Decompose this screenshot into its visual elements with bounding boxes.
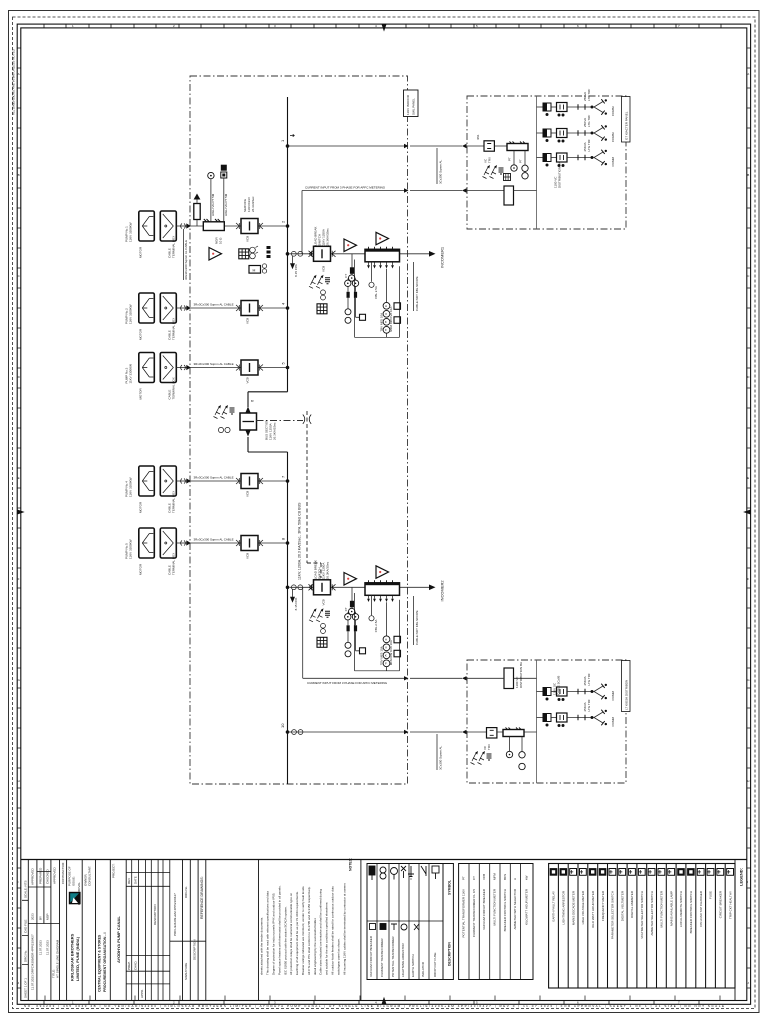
svg-text:DRG No.: DRG No.: [184, 886, 188, 898]
svg-text:ALL DIMENSIONS ARE IN MM UNLES: ALL DIMENSIONS ARE IN MM UNLESS NOTED: [12, 48, 16, 115]
svg-text:AMMETER SELECTOR SWITCH: AMMETER SELECTOR SWITCH: [650, 891, 654, 936]
svg-text:EARTH FAULT RELAY: EARTH FAULT RELAY: [552, 891, 556, 921]
svg-text:and suitable for the site cond: and suitable for the site conditions spe…: [325, 901, 329, 975]
11KV indoor switchgear panel boundary (dash-dot): [190, 76, 408, 784]
GT kiosk APFC box: [504, 186, 514, 205]
svg-text:3Rx3Cx300 Sqmm AL CABLE: 3Rx3Cx300 Sqmm AL CABLE: [194, 303, 234, 307]
svg-text:sheets attached with the tende: sheets attached with the tender document…: [260, 917, 264, 975]
svg-text:CABLE 3Cx95: CABLE 3Cx95: [557, 675, 561, 695]
svg-text:VCB: VCB: [246, 236, 250, 242]
legend row 8: [619, 869, 626, 876]
abbreviation table frame: [459, 864, 533, 980]
svg-text:LIGHTNING ARRESTOR: LIGHTNING ARRESTOR: [401, 943, 405, 977]
svg-text:CENTRAL EQUIPMENT & STORES: CENTRAL EQUIPMENT & STORES: [98, 934, 102, 992]
svg-text:LOCAL REMOTE SWITCH: LOCAL REMOTE SWITCH: [679, 891, 683, 927]
pump1 H box: [249, 266, 261, 274]
NGR bus box: [203, 222, 224, 231]
pump 4 feeder wire: [190, 480, 288, 482]
svg-text:SIGNATURE: SIGNATURE: [184, 963, 188, 980]
svg-text:CONTRACTOR:: CONTRACTOR:: [61, 862, 65, 884]
GT kiosk partition wire: [536, 96, 538, 229]
svg-text:COMM: COMM: [611, 106, 615, 116]
pump1 flags cluster: [267, 246, 271, 258]
legend row 3: [570, 869, 577, 876]
svg-text:DISTRIBUTION BA: DISTRIBUTION BA: [519, 662, 523, 688]
svg-text:HT SINGLE LINE DIAGRAM: HT SINGLE LINE DIAGRAM: [56, 939, 60, 978]
pump 4 breaker: [236, 474, 263, 489]
incomer 2 metering frame inner: [355, 593, 400, 671]
svg-text:ISSUE:: ISSUE:: [72, 876, 76, 886]
svg-text:3Cx300 Sqmm AL: 3Cx300 Sqmm AL: [438, 159, 442, 184]
svg-text:CHECKED: CHECKED: [46, 868, 50, 884]
pump1 small circles: [262, 264, 266, 268]
svg-text:TERMINAL BOX: TERMINAL BOX: [172, 318, 176, 340]
svg-text:LT KIOSK DISTRIBDN: LT KIOSK DISTRIBDN: [625, 680, 629, 710]
symbol table 1 lower glyph row: [370, 924, 420, 931]
node 8 junction: [286, 541, 290, 545]
incomer 1 cable scope label: [413, 262, 415, 311]
pump 1 cable drop line: [183, 229, 185, 280]
pump motor M1 and cable terminal box: [139, 211, 191, 241]
svg-text:TRX: TRX: [487, 744, 491, 750]
svg-text:CABLE NOT KBL SCOPE: CABLE NOT KBL SCOPE: [415, 610, 419, 645]
incomer 2 APFC frame outer: [303, 587, 404, 678]
legend row 10: [638, 869, 645, 876]
svg-text:NOTES:: NOTES:: [348, 858, 352, 871]
bus section dash-dot tie wire: [257, 420, 304, 422]
svg-text:A: A: [18, 72, 20, 76]
LT kiosk partition wire: [536, 660, 538, 783]
pump 1 feeder wire: [190, 225, 288, 227]
svg-text:Panel space heaters with therm: Panel space heaters with thermostat shal…: [277, 885, 281, 975]
svg-text:POTENTIAL TRANSFORMER: POTENTIAL TRANSFORMER: [391, 936, 395, 977]
svg-text:3Rx3Cx300 Sqmm AL CABLE: 3Rx3Cx300 Sqmm AL CABLE: [184, 240, 188, 280]
GT kiosk service transformer box: [484, 141, 494, 151]
LT kiosk feeder cable label: [436, 734, 438, 770]
pump 5 feeder wire: [190, 542, 288, 544]
svg-text:LTG TRF: LTG TRF: [587, 673, 591, 685]
svg-text:INCOMER2: INCOMER2: [440, 580, 445, 602]
incomer 2 exit wire: [408, 586, 429, 588]
svg-text:11KV 3300KW: 11KV 3300KW: [129, 304, 133, 324]
incomer 1 exit wire: [408, 253, 429, 255]
incomer 2 APFC wire to LT kiosk: [410, 677, 462, 679]
svg-text:SCALE: NTS: SCALE: NTS: [24, 880, 28, 898]
svg-text:GT KIACTER PANEL: GT KIACTER PANEL: [625, 111, 629, 140]
motor protection relay triangle: [209, 248, 222, 261]
svg-text:11KV 3300KW: 11KV 3300KW: [129, 364, 133, 384]
svg-text:CONSULTANT:: CONSULTANT:: [88, 865, 92, 886]
symbol description header: [443, 864, 453, 980]
legend row 9: [629, 869, 636, 876]
frame tick marks right: [747, 48, 751, 988]
svg-text:LEGEND:: LEGEND:: [739, 868, 744, 886]
svg-text:LIMITED, PUNE (INDIA): LIMITED, PUNE (INDIA): [75, 936, 80, 981]
pump1 aux grid meter: [239, 249, 249, 259]
svg-text:CURRENT INPUT FROM 3 PHASE FOR: CURRENT INPUT FROM 3 PHASE FOR APFC METE…: [305, 186, 386, 190]
svg-text:POTENTIAL TRANSFORMER 11KV: POTENTIAL TRANSFORMER 11KV: [462, 889, 466, 937]
svg-text:VCB: VCB: [246, 318, 250, 324]
GT kiosk PT drops: [514, 151, 525, 166]
pump motor M4 and cable terminal box: [139, 466, 191, 496]
incomer 1 metering frame: [355, 260, 400, 338]
svg-text:COMM: COMM: [611, 132, 615, 142]
GT kiosk aux grid: [504, 174, 511, 181]
svg-text:F: F: [18, 577, 20, 581]
legend row 17: [707, 869, 714, 876]
LT kiosk branch 1: [537, 684, 608, 701]
LT kiosk PT bus: [503, 728, 524, 737]
svg-text:F: F: [747, 577, 749, 581]
drg number columns: [170, 860, 259, 1001]
svg-text:3Rx3Cx300 Sqmm AL CABLE: 3Rx3Cx300 Sqmm AL CABLE: [194, 538, 234, 542]
svg-text:2023: 2023: [31, 913, 35, 920]
GT kiosk panel boundary top right (dash-dot): [467, 96, 626, 229]
svg-text:VACUUM CIRCUIT BREAKER: VACUUM CIRCUIT BREAKER: [482, 888, 486, 930]
svg-text:PT: PT: [508, 157, 512, 161]
node 5 junction: [286, 366, 290, 370]
svg-text:TERMINAL BOX: TERMINAL BOX: [172, 377, 176, 399]
node 4 junction: [286, 306, 290, 310]
bus section breaker Q6: [240, 413, 257, 430]
legend row 16: [697, 869, 704, 876]
CVT square symbol: [221, 165, 227, 171]
legend row 15: [688, 869, 695, 876]
pump1 meter circles: [250, 247, 256, 253]
pump motor M2 and cable terminal box: [139, 293, 191, 323]
svg-text:CT: CT: [472, 876, 476, 880]
svg-text:11KV INDOOR: 11KV INDOOR: [406, 94, 410, 115]
revision table grid: [126, 860, 170, 1001]
svg-text:BCS: BCS: [503, 874, 507, 880]
symbol table 1 glyphs: [369, 866, 439, 880]
svg-text:PROCUREMENT ORGANISATION - I: PROCUREMENT ORGANISATION - I: [103, 933, 107, 992]
LT kiosk wire: [497, 731, 537, 733]
svg-text:A: A: [747, 72, 749, 76]
svg-text:SHEET 1 OF 1: SHEET 1 OF 1: [24, 978, 28, 998]
svg-text:VACUUM CIRCUIT BREAKER: VACUUM CIRCUIT BREAKER: [369, 935, 373, 977]
LT kiosk panel boundary bottom right (dash-dot): [467, 660, 626, 783]
LEGEND heading: [734, 860, 736, 1001]
svg-text:COMM: COMM: [611, 717, 615, 727]
panel label box: 11KV INDOOR SWGR PANEL: [404, 90, 419, 117]
svg-text:VCB: VCB: [322, 599, 326, 605]
notes section border: [360, 860, 362, 1001]
svg-text:APPD.: APPD.: [140, 989, 144, 998]
svg-text:SYMBOL: SYMBOL: [448, 879, 452, 895]
svg-text:DESCRIPTION: DESCRIPTION: [193, 939, 197, 960]
svg-text:PT: PT: [462, 876, 466, 880]
bus section jog wire: [248, 392, 288, 452]
svg-text:11KV 3300KW: 11KV 3300KW: [129, 477, 133, 497]
svg-text:COMM: COMM: [611, 691, 615, 701]
svg-text:VCB: VCB: [322, 266, 326, 272]
GT kiosk entry wires: [466, 146, 504, 191]
svg-text:MULTI FUNCTION METER: MULTI FUNCTION METER: [493, 888, 497, 925]
frame tick marks top: [44, 24, 721, 28]
svg-text:TRX: TRX: [488, 157, 492, 163]
LT kiosk branch 2: [537, 710, 608, 727]
approval rows lines: [28, 872, 59, 924]
pump motor M3 and cable terminal box: [139, 353, 191, 383]
GT kiosk branch 2: [537, 125, 608, 142]
svg-text:VCB: VCB: [246, 491, 250, 497]
bus section aux meters: [218, 427, 223, 432]
legend table row lines: [558, 864, 725, 989]
svg-text:CABLE NOT KBL SCOPE: CABLE NOT KBL SCOPE: [415, 276, 419, 311]
svg-text:KILO WATT HOUR METER: KILO WATT HOUR METER: [591, 890, 595, 928]
svg-text:KILOWATT HOUR METER: KILOWATT HOUR METER: [525, 888, 529, 925]
pump 3 breaker: [236, 360, 263, 375]
incomer 2 cable scope label: [413, 596, 415, 645]
svg-text:BY: BY: [39, 916, 43, 920]
svg-text:E: E: [18, 476, 20, 480]
LT kiosk entry wire: [466, 731, 487, 733]
svg-text:Breaker ratings indicated are: Breaker ratings indicated are minimum; v…: [301, 885, 305, 975]
incomer 2 breaker: [309, 580, 336, 595]
svg-text:IEC 61850 protocol with the st: IEC 61850 protocol with the station SCAD…: [283, 906, 287, 975]
svg-text:EARTH SWITCH: EARTH SWITCH: [411, 954, 415, 977]
centering mark left: [17, 510, 25, 515]
svg-text:DIGITAL AMMETER: DIGITAL AMMETER: [630, 890, 634, 918]
svg-text:COMM: COMM: [611, 157, 615, 167]
svg-text:REFERENCE DRAWINGS:: REFERENCE DRAWINGS:: [200, 876, 204, 919]
svg-text:PRCL/E/4209+EM 4PP/23/0427: PRCL/E/4209+EM 4PP/23/0427: [173, 893, 177, 936]
svg-text:3Rx3Cx300 Sqmm AL CABLE: 3Rx3Cx300 Sqmm AL CABLE: [194, 362, 234, 366]
legend row 12: [658, 869, 665, 876]
svg-text:11.07.2023: 11.07.2023: [46, 940, 50, 955]
svg-text:All protection relays shall be: All protection relays shall be numerical…: [289, 893, 293, 975]
bus break symbol: [303, 415, 311, 424]
legend row 14: [678, 869, 685, 876]
svg-text:LIGHTNING ARRESTOR: LIGHTNING ARRESTOR: [562, 890, 566, 924]
pump 2 feeder wire: [190, 307, 288, 309]
svg-text:HIGH VG PT 5M: HIGH VG PT 5M: [224, 193, 228, 216]
svg-text:PT: PT: [519, 159, 523, 163]
svg-text:CAD FILE: CAD FILE: [24, 919, 28, 933]
svg-text:TERMINAL BOX: TERMINAL BOX: [172, 236, 176, 258]
svg-text:HIGH VG PT 5M: HIGH VG PT 5M: [211, 193, 215, 216]
svg-text:E: E: [747, 476, 749, 480]
svg-text:A: A: [513, 878, 517, 880]
small arrow glyph: [290, 134, 295, 136]
centering mark bottom: [382, 997, 387, 1005]
svg-text:H: H: [253, 268, 256, 273]
svg-text:H: H: [747, 779, 749, 783]
kirloskar logo: [69, 892, 81, 905]
svg-text:CURRENT TRANSFORMER: CURRENT TRANSFORMER: [380, 938, 384, 977]
pump 5 breaker: [236, 536, 263, 551]
svg-text:KIRLOSKAR BROTHERS: KIRLOSKAR BROTHERS: [70, 933, 75, 981]
svg-text:B: B: [747, 173, 749, 177]
svg-text:H: H: [18, 779, 20, 783]
svg-text:LTG TRF: LTG TRF: [587, 139, 591, 151]
symbol table 1 frame: [367, 864, 443, 980]
legend row 19: [727, 869, 734, 876]
NGR earthing resistor R1: [194, 204, 200, 220]
service feeder wire to GT kiosk: [288, 145, 463, 147]
GT kiosk wire: [495, 145, 508, 147]
svg-text:DRG No.: DRG No.: [24, 950, 28, 962]
title block section lines left: [28, 860, 126, 1001]
svg-text:ISOLATOR: ISOLATOR: [421, 961, 425, 977]
LT kiosk label box: [622, 661, 631, 712]
GT kiosk PT bus: [507, 142, 528, 151]
svg-text:FREQUENCY METER: FREQUENCY METER: [601, 890, 605, 921]
legend row 18: [717, 869, 724, 876]
svg-text:MAINS DECADE METER: MAINS DECADE METER: [571, 890, 575, 925]
pump 2 breaker: [236, 301, 263, 316]
node 7 junction: [286, 479, 290, 483]
svg-text:TRIP CKT HEALTHY: TRIP CKT HEALTHY: [728, 891, 732, 919]
svg-text:MOTOR: MOTOR: [139, 563, 143, 575]
svg-text:26.3A/3Sec: 26.3A/3Sec: [251, 196, 255, 212]
bus section fuse cluster: [214, 405, 235, 419]
svg-text:MFM: MFM: [493, 873, 497, 880]
centering mark right: [743, 510, 751, 515]
svg-text:DROP OUT FUSE: DROP OUT FUSE: [433, 952, 437, 977]
svg-text:TERMINAL BOX: TERMINAL BOX: [172, 553, 176, 575]
svg-text:MSP: MSP: [46, 913, 50, 920]
svg-text:DIGITAL VOLTMETER: DIGITAL VOLTMETER: [620, 890, 624, 921]
incomer 1 cluster: [286, 227, 408, 338]
svg-text:MOTOR: MOTOR: [139, 388, 143, 400]
svg-text:AYODHYA PUMP CANAL: AYODHYA PUMP CANAL: [116, 916, 121, 963]
svg-text:DESCRIPTION: DESCRIPTION: [153, 904, 157, 925]
svg-text:MOTOR: MOTOR: [139, 246, 143, 258]
svg-text:Earthing of all equipment shal: Earthing of all equipment shall be as pe…: [295, 891, 299, 975]
svg-text:26.3KA/3Sec: 26.3KA/3Sec: [273, 422, 277, 440]
legend table frame: [549, 864, 735, 989]
svg-text:All outdoor kiosk feeders shal: All outdoor kiosk feeders shall be rated…: [331, 886, 335, 975]
svg-text:switchgear panel as shown.: switchgear panel as shown.: [336, 938, 340, 975]
legend row 4: [580, 869, 587, 876]
LT kiosk APFC box: [504, 668, 514, 689]
scale column row lines: [22, 900, 28, 964]
svg-text:3Rx3Cx300 Sqmm AL CABLE: 3Rx3Cx300 Sqmm AL CABLE: [194, 476, 234, 480]
title block top border: [21, 859, 747, 861]
pump 1 breaker: [236, 219, 263, 234]
svg-text:3Cx300 Sqmm AL: 3Cx300 Sqmm AL: [438, 745, 442, 770]
legend row 2: [560, 869, 567, 876]
pump 3 feeder wire: [190, 367, 288, 369]
incomer 2 cluster: [286, 560, 408, 671]
node 2 junction: [286, 224, 290, 228]
incomer 1 breaker: [309, 246, 336, 261]
legend row 6: [599, 869, 606, 876]
svg-text:LTG TRF: LTG TRF: [587, 115, 591, 127]
svg-text:INCOMER1: INCOMER1: [440, 246, 445, 268]
svg-text:LTG TRF: LTG TRF: [587, 699, 591, 711]
LT kiosk fuse cluster: [471, 751, 492, 765]
LT kiosk service transformer box: [487, 728, 497, 738]
svg-text:10 Ω: 10 Ω: [218, 237, 222, 244]
svg-text:VOLTMETER SELECTOR SWITCH: VOLTMETER SELECTOR SWITCH: [640, 891, 644, 939]
svg-text:I: I: [18, 880, 19, 884]
svg-text:BREAKER CONTROL SWITCH: BREAKER CONTROL SWITCH: [503, 889, 507, 931]
centering mark top: [382, 24, 387, 32]
legend row 13: [668, 869, 675, 876]
svg-text:MULTI FUNCTION METER: MULTI FUNCTION METER: [660, 890, 664, 927]
11kV main bus vertical wire: [287, 97, 289, 784]
legend row 5: [589, 869, 596, 876]
svg-text:MAINS AVAILABLE LAMP: MAINS AVAILABLE LAMP: [669, 891, 673, 926]
svg-text:detail engineering by the succ: detail engineering by the successful bid…: [313, 917, 317, 975]
svg-text:11.07.2023 DRFC/4209/IDR 4PP/: 11.07.2023 DRFC/4209/IDR 4PP/23/0427: [31, 934, 35, 990]
svg-text:MOTOR: MOTOR: [139, 501, 143, 513]
svg-text:B: B: [18, 173, 20, 177]
svg-text:PROJECT:: PROJECT:: [112, 863, 116, 878]
GT kiosk branch 1: [537, 99, 608, 116]
LT kiosk PT drops: [510, 737, 523, 752]
svg-text:VCB: VCB: [246, 377, 250, 383]
GT kiosk fuse cluster: [483, 165, 504, 179]
svg-text:11KV, 1200A, 26.3 KA/3Sec., 3P: 11KV, 1200A, 26.3 KA/3Sec., 3PH, 50Hz CU…: [298, 502, 302, 580]
svg-text:This drawing shall be read wit: This drawing shall be read with relevant…: [266, 891, 270, 975]
svg-text:VCB: VCB: [246, 553, 250, 559]
svg-text:11KV 3300KW: 11KV 3300KW: [129, 539, 133, 559]
svg-text:CURRENT INPUT FROM 3 PHASE FOR: CURRENT INPUT FROM 3 PHASE FOR APFC METE…: [307, 681, 388, 685]
svg-text:PARAMETER SELECTOR SWITCH: PARAMETER SELECTOR SWITCH: [611, 891, 615, 939]
svg-text:APPROVED: APPROVED: [31, 867, 35, 885]
svg-text:ON LOAD TAP CHANGER: ON LOAD TAP CHANGER: [699, 890, 703, 927]
node 1 junction: [286, 144, 290, 148]
LT kiosk feeder wire: [288, 731, 463, 733]
svg-text:11KV 3300KW: 11KV 3300KW: [129, 222, 133, 242]
svg-text:kW: kW: [525, 876, 529, 881]
svg-text:CHKD.: CHKD.: [134, 960, 138, 970]
svg-text:CIRCUIT BREAKER: CIRCUIT BREAKER: [719, 890, 723, 918]
node 10 junction: [286, 730, 290, 734]
svg-text:LTG TRF: LTG TRF: [587, 89, 591, 101]
svg-text:HIGH VOLTAGE METER: HIGH VOLTAGE METER: [581, 890, 585, 924]
future bus dashed wire: [307, 411, 321, 578]
pump motor M5 and cable terminal box: [139, 528, 191, 558]
svg-text:APPROVED: APPROVED: [53, 866, 57, 884]
svg-text:PREPARED: PREPARED: [39, 867, 43, 884]
svg-text:All CTs and PTs shall conform: All CTs and PTs shall conform to IS 2705…: [307, 886, 311, 975]
svg-text:TERMINAL BOX: TERMINAL BOX: [172, 491, 176, 513]
svg-text:MOTOR: MOTOR: [139, 328, 143, 340]
GT kiosk branch 3: [537, 150, 608, 167]
svg-text:FUSE: FUSE: [709, 891, 713, 899]
svg-text:BREAKER CONTROL SWITCH: BREAKER CONTROL SWITCH: [689, 891, 693, 933]
svg-text:11.07.2023: 11.07.2023: [39, 940, 43, 955]
svg-text:All incoming 11KV cables shall: All incoming 11KV cables shall be termin…: [342, 883, 346, 975]
bottom zone tick row: [45, 996, 720, 1001]
svg-text:Degree of protection for indoo: Degree of protection for indoor panels I…: [272, 892, 276, 975]
frame tick marks bottom: [44, 1001, 699, 1005]
legend row 1: [550, 869, 557, 876]
svg-text:CURRENT TRANSFORMER CL 0.5: CURRENT TRANSFORMER CL 0.5: [472, 889, 476, 937]
svg-text:Cable sizes indicated are tent: Cable sizes indicated are tentative and …: [319, 889, 323, 975]
frame tick marks left: [17, 48, 21, 988]
kiosk feeder cable label: [436, 148, 438, 184]
svg-text:REV: REV: [127, 878, 131, 884]
svg-text:DESCRIPTION: DESCRIPTION: [448, 942, 452, 966]
APFC metering wire to GT kiosk: [302, 191, 462, 254]
legend row 11: [648, 869, 655, 876]
GT kiosk label box: [622, 97, 631, 143]
svg-text:10: 10: [280, 723, 285, 728]
PT circle symbol: [208, 172, 214, 178]
svg-text:SWL PANEL: SWL PANEL: [411, 98, 415, 115]
legend row 7: [609, 869, 616, 876]
svg-text:PREP.: PREP.: [127, 961, 131, 970]
svg-text:4N1: 4N1: [476, 134, 480, 140]
svg-text:DATE: DATE: [134, 876, 138, 884]
svg-text:VCB: VCB: [482, 874, 486, 880]
